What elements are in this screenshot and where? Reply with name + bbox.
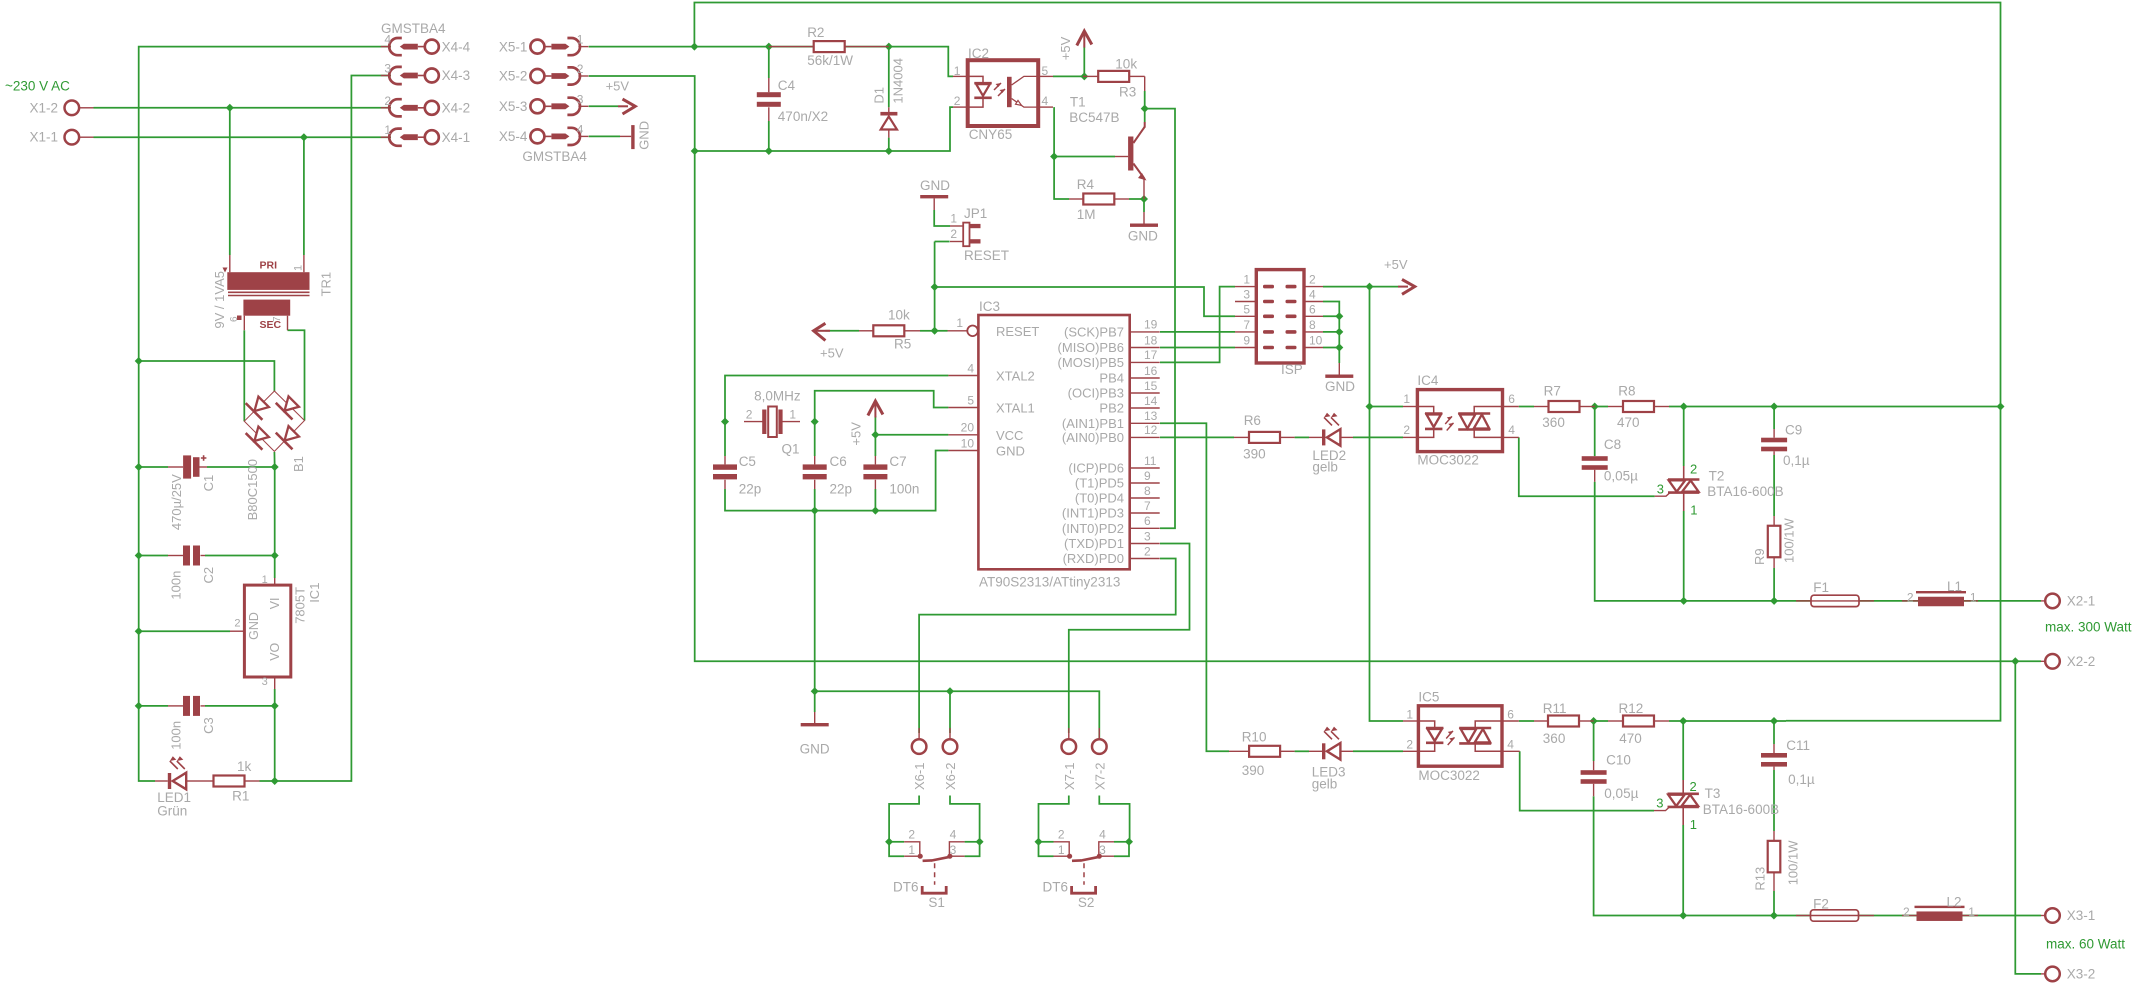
svg-text:1: 1	[789, 408, 796, 422]
wire node to CNY65 pin2	[695, 107, 953, 151]
svg-text:S1: S1	[928, 895, 945, 910]
resistor R3 10k	[1083, 57, 1145, 100]
connector X3-2	[2041, 967, 2095, 982]
svg-text:GND: GND	[920, 178, 950, 193]
svg-text:DT6: DT6	[893, 879, 919, 894]
svg-text:19: 19	[1144, 318, 1158, 332]
wire C3 node down to R1 node	[274, 706, 276, 781]
junction at 875.4,434.8	[871, 431, 879, 439]
wire LED3 to IC5 pin2	[1353, 750, 1403, 752]
svg-text:BTA16-600B: BTA16-600B	[1703, 802, 1779, 817]
svg-text:5: 5	[967, 393, 974, 407]
diode D1 1N4004	[872, 58, 906, 138]
junction at 274.7,705.9	[271, 702, 279, 710]
svg-text:L2: L2	[1947, 894, 1962, 909]
svg-text:(RXD)PD0: (RXD)PD0	[1063, 551, 1124, 566]
svg-text:10k: 10k	[888, 308, 910, 323]
svg-text:C9: C9	[1785, 423, 1802, 438]
junction at 1683.7,406.5	[1680, 403, 1688, 411]
capacitor C1 470u/25V	[168, 455, 216, 530]
svg-text:TR1: TR1	[318, 272, 333, 297]
wire X6-2 to GND rail	[949, 691, 951, 733]
svg-text:(OCI)PB3: (OCI)PB3	[1068, 386, 1124, 401]
connector X2-2	[2041, 654, 2095, 669]
svg-text:0,1µ: 0,1µ	[1788, 772, 1815, 787]
wire R6 to LED2	[1295, 436, 1309, 438]
wire X6-2 to S1	[950, 796, 980, 842]
svg-text:7: 7	[1144, 499, 1151, 513]
svg-text:4: 4	[1507, 737, 1514, 751]
svg-text:R11: R11	[1543, 701, 1567, 716]
connector X4 GMSTBA4	[381, 21, 471, 146]
wire X5-1 to R2 node	[589, 47, 953, 77]
svg-text:R7: R7	[1544, 383, 1561, 398]
junction at 1144,199	[1140, 195, 1148, 203]
svg-text:F1: F1	[1813, 580, 1829, 595]
junction at 274.7,781	[271, 777, 279, 785]
junction at 1594.7,406.5	[1591, 403, 1599, 411]
svg-text:X2-1: X2-1	[2067, 594, 2096, 609]
wire C2 row	[139, 555, 168, 557]
junction at 768.8,151	[765, 147, 773, 155]
svg-text:~230 V AC: ~230 V AC	[5, 79, 70, 94]
svg-text:100n: 100n	[889, 482, 919, 497]
resistor R10 390	[1229, 729, 1295, 778]
svg-text:0,1µ: 0,1µ	[1783, 453, 1810, 468]
jumper JP1 RESET	[950, 206, 1009, 263]
wire cap rail down to GND rail	[814, 511, 816, 692]
wire C4 top	[768, 47, 770, 78]
capacitor C3 100n	[168, 696, 216, 750]
wire IC3 PB0 to R6	[1160, 436, 1234, 438]
svg-text:MOC3022: MOC3022	[1418, 768, 1480, 783]
svg-text:4: 4	[577, 122, 584, 136]
junction at 1774.1,600.9	[1770, 597, 1778, 605]
svg-text:3: 3	[1099, 843, 1106, 857]
svg-text:JP1: JP1	[964, 206, 987, 221]
connector X5 GMSTBA4	[499, 33, 589, 164]
svg-text:390: 390	[1243, 447, 1266, 462]
svg-text:4: 4	[1508, 423, 1515, 437]
svg-text:PB2: PB2	[1099, 401, 1124, 416]
svg-text:ISP: ISP	[1281, 362, 1303, 377]
wire VCC node to IC3 VCC	[875, 434, 948, 436]
wire X7-1 to S2	[1039, 796, 1069, 842]
connector X6-2	[943, 728, 958, 790]
svg-text:Q1: Q1	[782, 441, 800, 456]
svg-text:XTAL2: XTAL2	[996, 369, 1035, 384]
svg-text:5: 5	[1042, 64, 1049, 78]
wire C10 column	[1593, 721, 1595, 761]
wire X1-2 to X4-2	[94, 107, 392, 109]
junction at 1144.7,108.6	[1141, 105, 1149, 113]
power +5V right of ISP	[1384, 257, 1415, 294]
svg-text:R4: R4	[1077, 177, 1095, 192]
wire base node to T1 base	[1054, 156, 1115, 158]
svg-text:X4-4: X4-4	[442, 39, 471, 54]
junction at 1774.1,406.5	[1770, 403, 1778, 411]
wire IC4 pin4 to T2 gate	[1519, 437, 1655, 496]
svg-text:X4-2: X4-2	[442, 101, 471, 116]
svg-text:8: 8	[1144, 484, 1151, 498]
wire IC3 XTAL1 to crystal right	[815, 391, 949, 422]
svg-text:4: 4	[950, 828, 957, 842]
svg-text:14: 14	[1144, 394, 1158, 408]
wire R12 to T3 node	[1669, 720, 1786, 722]
svg-text:16: 16	[1144, 364, 1158, 378]
svg-text:1: 1	[1406, 707, 1413, 721]
svg-text:3: 3	[384, 62, 391, 76]
junction at 1774,721	[1770, 717, 1778, 725]
resistor R6 390	[1234, 413, 1295, 462]
svg-text:22p: 22p	[830, 482, 853, 497]
fuse F1	[1796, 580, 1874, 607]
svg-text:10: 10	[1309, 334, 1323, 348]
connector X6-1	[912, 728, 927, 790]
svg-text:R12: R12	[1619, 701, 1644, 716]
svg-text:1: 1	[954, 64, 961, 78]
wire ISP pin4 to GND chain	[1323, 302, 1339, 364]
svg-text:(T1)PD5: (T1)PD5	[1075, 476, 1124, 491]
svg-text:(AIN1)PB1: (AIN1)PB1	[1062, 416, 1124, 431]
svg-text:1: 1	[1403, 392, 1410, 406]
wire IC3 SCK to ISP pin7	[1160, 331, 1235, 333]
wire C11 column	[1773, 721, 1775, 744]
wire D1 top	[888, 47, 890, 108]
svg-text:6: 6	[229, 316, 240, 322]
junction at 814.7,510.6	[811, 507, 819, 515]
wire C2 node to IC1 VI	[274, 556, 276, 579]
connector X3-1	[2041, 908, 2095, 923]
svg-text:X1-2: X1-2	[29, 100, 58, 115]
svg-text:2: 2	[1903, 905, 1910, 919]
svg-text:X7-1: X7-1	[1062, 763, 1077, 790]
svg-text:X5-2: X5-2	[499, 69, 528, 84]
wire T2 column	[1683, 407, 1685, 467]
wire IC3 MISO to ISP pin9	[1160, 347, 1235, 349]
svg-text:AT90S2313/ATtiny2313: AT90S2313/ATtiny2313	[979, 575, 1120, 590]
svg-text:2: 2	[1309, 273, 1316, 287]
junction at 1369.5,406.5	[1366, 403, 1374, 411]
svg-text:0,05µ: 0,05µ	[1604, 468, 1638, 483]
svg-text:2: 2	[1058, 828, 1065, 842]
resistor R11 360	[1534, 701, 1594, 746]
svg-text:5: 5	[1243, 302, 1250, 316]
svg-text:C4: C4	[778, 78, 796, 93]
LED2 gelb	[1309, 413, 1353, 475]
wire ISP pin8 to GND chain	[1323, 331, 1339, 333]
wire IC3 RXD to X6-1	[919, 559, 1176, 734]
wire bridge bottom to C1 node	[273, 452, 275, 467]
svg-text:6: 6	[1309, 302, 1316, 316]
svg-text:+5V: +5V	[848, 422, 863, 446]
svg-text:1: 1	[1058, 843, 1065, 857]
svg-text:3: 3	[1243, 288, 1250, 302]
wire IC1 VO to C3 node	[274, 689, 276, 706]
transformer TR1	[212, 255, 333, 331]
svg-text:3: 3	[1144, 529, 1151, 543]
svg-text:B1: B1	[291, 456, 306, 472]
svg-text:8,0MHz: 8,0MHz	[754, 389, 801, 404]
svg-text:IC1: IC1	[307, 583, 322, 603]
optocoupler IC4 MOC3022	[1403, 373, 1519, 468]
junction at 694.4,46.6	[690, 43, 698, 51]
switch S1 DT6	[885, 828, 984, 911]
wire X1-2 to TR1 PRI pin	[229, 108, 231, 255]
svg-text:1: 1	[950, 211, 957, 225]
junction at 1339.3,316.3	[1335, 312, 1343, 320]
capacitor C11 0,1u	[1761, 738, 1815, 787]
wire GND symbol stub	[814, 691, 816, 712]
svg-text:6: 6	[1144, 514, 1151, 528]
wire +5V to VCC node	[874, 416, 876, 435]
capacitor C4 470n/X2	[757, 78, 828, 124]
wire X2-2 branch down to X3-2	[2015, 661, 2041, 974]
svg-text:VCC: VCC	[996, 428, 1023, 443]
svg-text:R1: R1	[232, 789, 249, 804]
svg-text:X2-2: X2-2	[2067, 654, 2096, 669]
svg-text:1: 1	[1970, 590, 1977, 604]
junction at 934.6,287	[931, 283, 939, 291]
wire IC3 MOSI to ISP pin1	[1160, 287, 1235, 363]
svg-text:T1: T1	[1070, 94, 1086, 109]
resistor R13 100/1W	[1753, 831, 1801, 891]
wire C5 bottom to ground rail	[725, 451, 948, 511]
junction at 1683.2,915.5	[1679, 912, 1687, 920]
svg-text:10: 10	[961, 436, 975, 450]
transistor T1 BC547B	[1069, 94, 1146, 199]
wire R11 to C10 node	[1594, 720, 1608, 722]
wire SEC pin7 to bridge right	[288, 330, 305, 420]
svg-text:RESET: RESET	[996, 324, 1039, 339]
svg-text:C3: C3	[201, 717, 216, 734]
svg-text:GND: GND	[1128, 228, 1158, 243]
wire R9 to X2-1 rail	[1773, 568, 1775, 601]
junction at 229.8,107.8	[226, 104, 234, 112]
wire C7 bottom	[874, 489, 876, 511]
resistor R2 56k/1W	[769, 25, 889, 68]
svg-text:7: 7	[1243, 318, 1250, 332]
LED1 Gruen	[155, 756, 198, 818]
svg-text:100n: 100n	[169, 721, 184, 750]
svg-text:(TXD)PD1: (TXD)PD1	[1064, 536, 1124, 551]
svg-text:3: 3	[577, 92, 584, 106]
voltage regulator IC1 7805T	[230, 574, 322, 689]
svg-text:4: 4	[384, 33, 391, 47]
junction at 274.7,467	[271, 463, 279, 471]
svg-text:1: 1	[1968, 905, 1975, 919]
junction at 768.8,46.6	[765, 43, 773, 51]
junction at 1054.1,156.5	[1050, 153, 1058, 161]
svg-text:gelb: gelb	[1312, 777, 1338, 792]
svg-text:470µ/25V: 470µ/25V	[169, 474, 184, 530]
wire +5V net down to IC4 pin1	[1370, 287, 1404, 407]
wire C1 row	[139, 466, 168, 468]
svg-text:3: 3	[262, 676, 268, 688]
wire R1 to node	[260, 780, 275, 782]
wire IC5 pin4 to T3 gate	[1520, 751, 1654, 810]
wire C3 row	[139, 705, 168, 707]
wire IC4 pin6 to R7	[1519, 406, 1534, 408]
svg-text:9V / 1VA5: 9V / 1VA5	[212, 271, 227, 329]
svg-text:1: 1	[293, 265, 305, 271]
svg-text:R13: R13	[1753, 867, 1768, 891]
svg-text:T2: T2	[1709, 468, 1725, 483]
svg-text:X4-3: X4-3	[442, 68, 471, 83]
svg-text:470: 470	[1619, 731, 1642, 746]
junction at 1369.5,286.6	[1366, 283, 1374, 291]
svg-text:1: 1	[577, 33, 584, 47]
wire RESET to ISP pin5	[935, 287, 1235, 316]
wire CNY65 pin4 down to base node	[1054, 107, 1069, 199]
wire collector node down	[1144, 109, 1146, 122]
svg-text:CNY65: CNY65	[969, 127, 1013, 142]
junction at 888.8,46.6	[885, 43, 893, 51]
junction at 1773.9,915.5	[1770, 912, 1778, 920]
svg-text:2: 2	[1403, 423, 1410, 437]
svg-text:+5V: +5V	[1384, 257, 1408, 272]
switch S2 DT6	[1035, 828, 1134, 911]
wire crystal left to C5	[724, 422, 726, 456]
resistor R7 360	[1534, 383, 1595, 429]
wire CNY65 pin5 to R3	[1053, 75, 1083, 77]
svg-text:2: 2	[577, 62, 584, 76]
svg-text:2: 2	[1690, 462, 1697, 477]
svg-text:R2: R2	[807, 25, 824, 40]
wire X7-2 to S2	[1099, 796, 1129, 842]
svg-text:4: 4	[967, 361, 974, 375]
wire R5 to RESET node	[920, 330, 935, 332]
wire R4 to emitter node	[1129, 198, 1144, 200]
svg-text:GND: GND	[637, 121, 652, 150]
wire X5-3 stub to +5V	[589, 105, 618, 107]
svg-text:2: 2	[950, 227, 957, 241]
svg-text:100/1W: 100/1W	[1786, 840, 1801, 886]
capacitor C9 0,1u	[1761, 423, 1810, 469]
svg-text:gelb: gelb	[1312, 460, 1338, 475]
wire X5-2 to lower rail	[589, 76, 2016, 661]
svg-text:X4-1: X4-1	[442, 130, 471, 145]
svg-text:IC3: IC3	[979, 299, 1000, 314]
connector X7-2	[1092, 728, 1107, 790]
svg-text:IC4: IC4	[1417, 373, 1439, 388]
wire crystal right to C6	[814, 422, 816, 456]
capacitor C5 22p	[713, 454, 761, 496]
svg-text:GND: GND	[1325, 379, 1355, 394]
wire T3 column	[1682, 721, 1684, 780]
svg-text:R5: R5	[894, 337, 911, 352]
svg-text:100/1W: 100/1W	[1782, 517, 1797, 563]
svg-text:R10: R10	[1242, 729, 1267, 744]
wire C6 bottom	[814, 489, 816, 511]
svg-text:13: 13	[1144, 409, 1158, 423]
wire X1-1 to TR1 PRI pin	[303, 137, 305, 255]
wire R10 to LED3	[1295, 750, 1309, 752]
crystal Q1 8,0MHz	[744, 389, 801, 457]
svg-text:1N4004: 1N4004	[890, 58, 905, 104]
connector X1-2	[29, 100, 93, 115]
wire +5V arrow to R5	[825, 330, 859, 332]
svg-text:VO: VO	[268, 642, 282, 660]
svg-text:9: 9	[1243, 334, 1250, 348]
svg-text:BC547B: BC547B	[1069, 110, 1119, 125]
svg-text:3: 3	[950, 843, 957, 857]
junction at 138.7,361	[135, 357, 143, 365]
junction at 814.7,691.2	[811, 687, 819, 695]
ground rail symbol	[800, 712, 830, 757]
svg-text:0,05µ: 0,05µ	[1604, 786, 1638, 801]
resistor R9 100/1W	[1752, 516, 1797, 568]
wire X5-1 perimeter to right side	[694, 3, 2000, 721]
junction at 138.7,467	[135, 463, 143, 471]
svg-text:(SCK)PB7: (SCK)PB7	[1064, 325, 1124, 340]
wire ISP pin10 to GND chain	[1323, 347, 1339, 349]
triac T3 BTA16-600B	[1654, 779, 1779, 832]
capacitor C2 100n	[168, 546, 216, 600]
wire X5-4 stub to GND	[589, 135, 620, 137]
junction at 1683.7,600.9	[1680, 597, 1688, 605]
wire X4-4 to left rail	[139, 47, 391, 781]
svg-text:+5V: +5V	[1058, 36, 1073, 60]
svg-text:PB4: PB4	[1099, 371, 1124, 386]
svg-text:C8: C8	[1604, 437, 1621, 452]
svg-text:12: 12	[1144, 423, 1158, 437]
power +5V at X5-3	[606, 79, 636, 114]
svg-text:2: 2	[1406, 737, 1413, 751]
svg-text:C11: C11	[1786, 738, 1810, 753]
svg-text:X6-2: X6-2	[943, 763, 958, 790]
svg-text:1: 1	[956, 316, 963, 330]
svg-text:C2: C2	[201, 567, 216, 584]
capacitor C8 0,05u	[1582, 437, 1638, 483]
svg-text:9: 9	[1144, 469, 1151, 483]
svg-text:VI: VI	[268, 597, 282, 609]
ground below T1	[1128, 212, 1158, 243]
microcontroller IC3 AT90S2313/ATtiny2313	[948, 299, 1160, 590]
svg-text:7: 7	[272, 316, 283, 322]
junction at 950,691.2	[946, 687, 954, 695]
svg-text:max. 300 Watt: max. 300 Watt	[2045, 620, 2132, 635]
svg-text:1k: 1k	[237, 759, 252, 774]
svg-text:T3: T3	[1705, 786, 1721, 801]
connector X2-1	[2041, 594, 2095, 609]
capacitor C6 22p	[803, 454, 852, 496]
svg-text:GMSTBA4: GMSTBA4	[522, 149, 587, 164]
capacitor C7 100n	[863, 454, 919, 496]
svg-text:22p: 22p	[739, 482, 762, 497]
power +5V above C7	[848, 401, 883, 446]
wire RESET to IC3	[935, 330, 948, 332]
junction at 888.8,151	[885, 147, 893, 155]
svg-text:390: 390	[1242, 763, 1265, 778]
svg-text:1: 1	[1690, 502, 1697, 517]
wire JP1 pin2 RESET net	[935, 241, 950, 243]
wire IC3 XTAL2 to crystal	[725, 376, 948, 422]
junction at 2015.3,661.3	[2011, 657, 2019, 665]
svg-text:R8: R8	[1618, 383, 1635, 398]
wire emitter node to GND	[1143, 199, 1145, 212]
wire ISP pin6 to GND chain	[1323, 315, 1339, 317]
svg-text:470: 470	[1617, 415, 1640, 430]
svg-text:R9: R9	[1752, 548, 1767, 565]
svg-text:X1-1: X1-1	[29, 130, 58, 145]
wire SEC pin6 to bridge left	[243, 330, 245, 421]
svg-text:10k: 10k	[1115, 57, 1137, 72]
svg-text:X5-1: X5-1	[499, 39, 528, 54]
wire collector node to IC3 INT0	[1145, 109, 1175, 529]
svg-text:(INT0)PD2: (INT0)PD2	[1062, 521, 1124, 536]
svg-text:X3-2: X3-2	[2067, 967, 2096, 982]
